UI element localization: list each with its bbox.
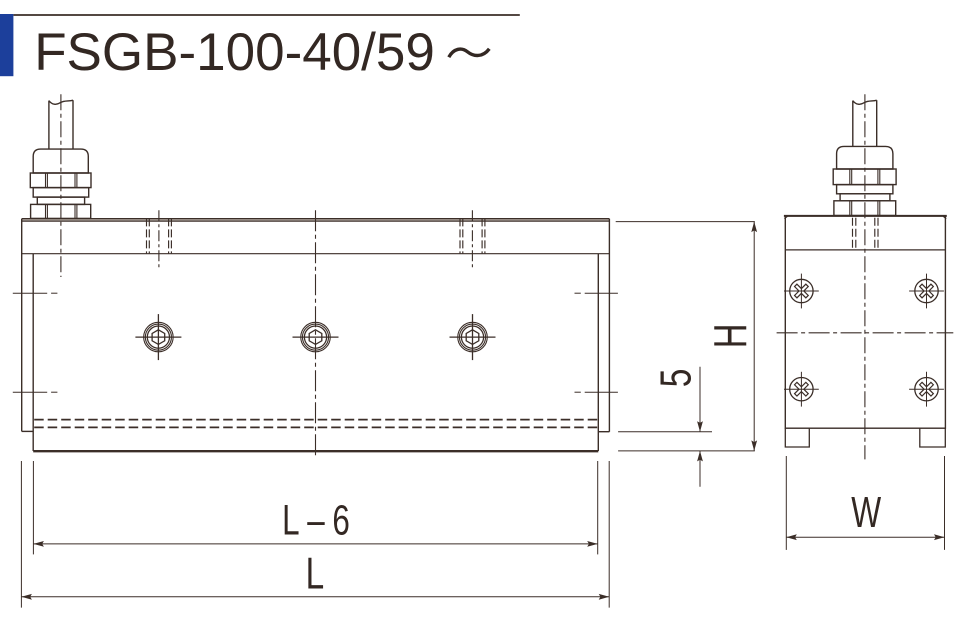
dim L-6 arrow right [587,541,598,547]
side hole tick left upper [13,292,58,294]
dim L-6 left extension [32,461,34,554]
front gland hex nut 1 [30,173,91,188]
dim L arrow right [599,594,610,600]
front view gland centerline [60,94,62,277]
dim L line [21,596,609,598]
dim H bottom extension line [618,450,755,452]
side screw S3 [784,372,819,407]
side gland centerline [864,94,866,459]
side body top corner chamfer right [943,216,946,218]
dim L-6 right extension [597,461,599,554]
front gland nut1 facet lines [45,173,47,188]
dim L-6 arrow left [33,541,44,547]
side gland cable break wave [853,100,877,104]
dim H arrow down [751,440,757,451]
side body top edge emphasis [784,215,947,217]
front cover plate right edge [597,254,599,451]
side hole tick right upper [575,292,618,294]
front body right bottom step [598,431,609,433]
side hole tick right lower [575,391,618,393]
front central vertical centerline [315,210,317,458]
side screw S4 [909,372,944,407]
front gland nut2 facet lines [45,204,47,218]
svg-text:FSGB-100-40/59: FSGB-100-40/59 [34,23,435,82]
side gland hex nut 2 [834,201,896,216]
dim H arrow up [751,222,757,233]
dim H line [753,222,755,451]
title tilde [449,49,490,57]
front body top edge lower line [22,220,610,222]
front gland cable right edge [72,100,74,149]
side gland ring 1 [837,185,893,194]
svg-text:L: L [306,549,325,599]
hidden tapped hole 1 walls [147,218,172,253]
dim L-6 line [33,543,597,545]
dim W line [786,536,944,538]
side screw S2 [909,274,944,309]
front body left bottom step [22,430,34,432]
dim W left extension [785,456,787,550]
dim L arrow left [21,594,32,600]
side hole tick left lower [13,391,58,393]
side gland ring 2 [840,194,890,201]
dim 5 extension line [618,431,712,433]
side hidden gland thread walls [853,218,879,250]
side gland nut1 facet lines [849,169,851,185]
dim W arrow left [786,534,797,540]
side left foot [785,428,809,447]
cover bolt B3 [450,314,496,360]
dim L left extension [20,461,22,608]
dim H top extension line [616,221,755,223]
front cover plate left edge [32,254,34,451]
dim 5 upper leader [699,367,701,432]
front body top edge mid tone [22,219,610,221]
front hidden dashed row lower [34,426,598,428]
front body top edge upper line [22,218,610,220]
title blue bar [0,14,13,76]
side gland hex nut 1 [833,169,896,185]
dim W right extension [944,456,946,550]
side screw S1 [784,274,819,309]
cover bolt B1 [135,314,181,360]
dim 5 lower leader [699,451,701,487]
dim W arrow right [934,534,945,540]
front gland cable break wave [49,100,73,104]
front gland hex nut 2 [31,204,91,218]
side gland nut2 facet lines [849,201,851,216]
side gland cable left edge [852,101,854,147]
front gland ring 2 [37,197,84,204]
svg-text:L–6: L–6 [282,495,357,543]
front body left outer edge [21,219,23,432]
svg-text:H: H [704,323,756,348]
hidden tapped hole 2 centerline [471,210,473,269]
side lid band line [785,249,945,251]
hidden tapped hole 1 centerline [158,210,160,269]
front gland cable left edge [48,101,50,150]
title rule [13,14,519,16]
side right foot [920,428,946,447]
front gland ring 1 [33,188,88,198]
cover bolt B2 [293,322,339,352]
front gland dome [33,149,88,173]
svg-text:W: W [851,488,882,537]
side gland dome [837,146,893,169]
hidden tapped hole 2 walls [460,218,485,253]
side body outline [785,216,945,428]
front cover plate bottom heavy edge [33,450,598,452]
svg-text:5: 5 [652,369,700,388]
front lid band bottom line [22,253,610,255]
dim 5 arrow down [697,421,703,432]
front body right outer edge [608,219,610,432]
side gland cable right edge [876,100,878,146]
dim 5 arrow up [697,451,703,462]
side horizontal centerline [777,332,954,334]
dim L right extension [608,461,610,608]
side body top corner chamfer left [784,216,787,218]
front hidden dashed row upper [34,419,598,421]
